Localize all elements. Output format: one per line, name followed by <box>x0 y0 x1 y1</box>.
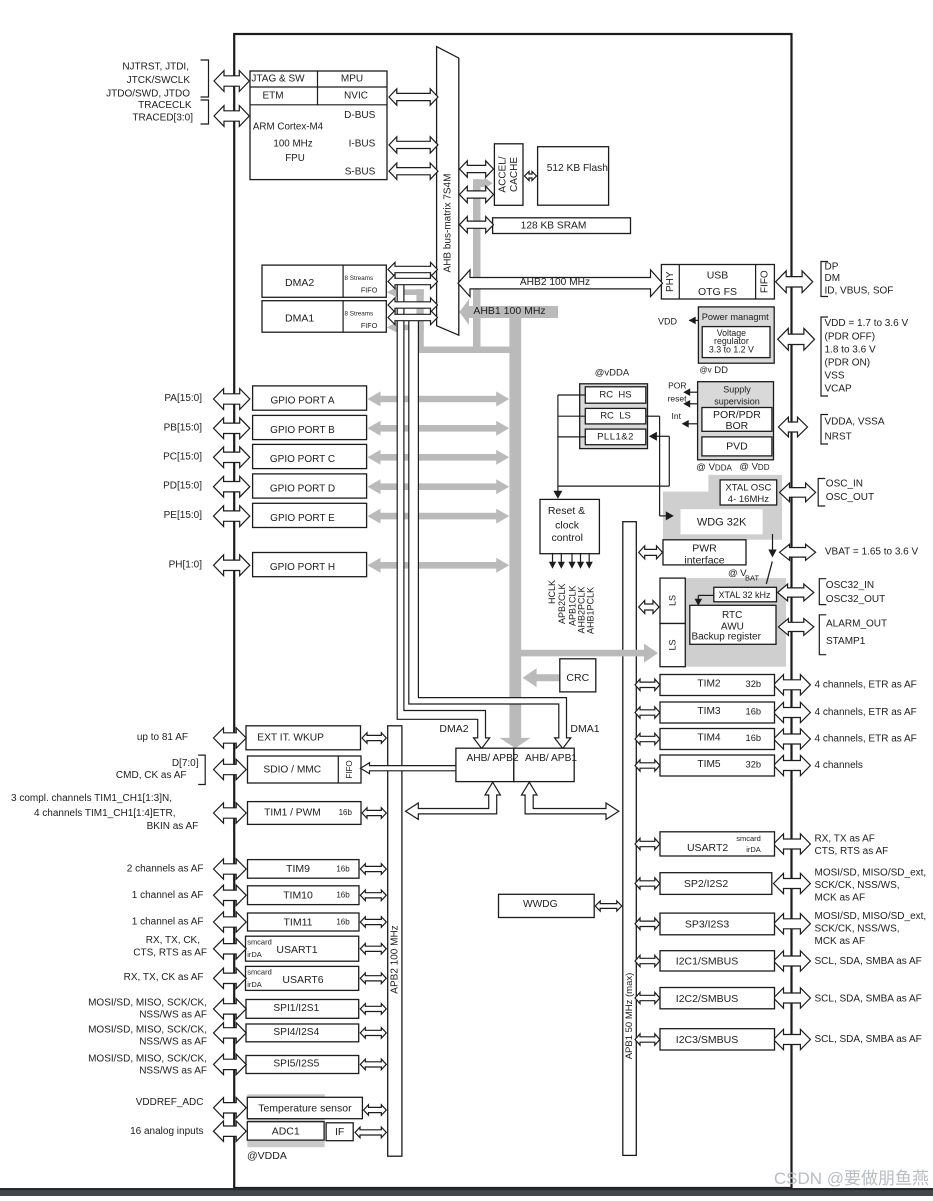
svg-text:32b: 32b <box>746 679 762 689</box>
svg-text:XTAL OSC: XTAL OSC <box>725 482 771 493</box>
svg-text:DMA1: DMA1 <box>570 723 599 735</box>
svg-text:LS: LS <box>668 595 678 606</box>
svg-text:supervision: supervision <box>714 396 760 406</box>
svg-text:4 channels TIM1_CH1[1:4]ETR,: 4 channels TIM1_CH1[1:4]ETR, <box>34 808 176 819</box>
svg-text:RX, TX as AF: RX, TX as AF <box>815 834 875 845</box>
svg-text:up to 81 AF: up to 81 AF <box>137 732 188 743</box>
svg-text:I2C3/SMBUS: I2C3/SMBUS <box>676 1034 738 1046</box>
svg-text:USB: USB <box>707 270 729 282</box>
svg-text:RC LS: RC LS <box>600 411 631 422</box>
svg-text:8 Streams: 8 Streams <box>345 310 374 317</box>
svg-text:AHB/ APB2: AHB/ APB2 <box>466 753 518 764</box>
svg-text:RX, TX, CK as AF: RX, TX, CK as AF <box>124 972 204 983</box>
svg-text:OTG FS: OTG FS <box>698 286 737 298</box>
svg-text:(PDR OFF): (PDR OFF) <box>825 331 876 342</box>
svg-text:128 KB SRAM: 128 KB SRAM <box>521 221 587 232</box>
svg-text:NVIC: NVIC <box>344 91 368 102</box>
svg-text:BKIN as AF: BKIN as AF <box>147 821 199 832</box>
svg-text:reset: reset <box>668 393 688 403</box>
svg-text:JTDO/SWD, JTDO: JTDO/SWD, JTDO <box>106 89 190 100</box>
svg-text:CTS, RTS as AF: CTS, RTS as AF <box>133 947 207 958</box>
svg-text:ETM: ETM <box>262 91 283 102</box>
svg-text:ADC1: ADC1 <box>272 1125 300 1137</box>
svg-text:512 KB Flash: 512 KB Flash <box>547 163 608 174</box>
svg-text:SCK/CK, NSS/WS,: SCK/CK, NSS/WS, <box>815 880 900 891</box>
svg-text:16b: 16b <box>336 918 350 927</box>
svg-text:NRST: NRST <box>825 432 852 443</box>
svg-text:Supply: Supply <box>723 384 751 394</box>
svg-text:TIM3: TIM3 <box>697 706 721 717</box>
svg-text:WDG 32K: WDG 32K <box>697 517 747 529</box>
svg-text:3.3 to 1.2 V: 3.3 to 1.2 V <box>709 345 754 355</box>
svg-text:interface: interface <box>684 555 724 567</box>
svg-text:CMD, CK as AF: CMD, CK as AF <box>116 770 187 781</box>
svg-text:4 channels, ETR as AF: 4 channels, ETR as AF <box>815 680 917 691</box>
svg-text:OSC_IN: OSC_IN <box>826 479 863 490</box>
svg-text:BAT: BAT <box>745 574 759 583</box>
svg-text:16b: 16b <box>746 707 762 717</box>
svg-text:GPIO PORT E: GPIO PORT E <box>270 513 335 524</box>
svg-text:TIM4: TIM4 <box>697 732 721 743</box>
svg-text:SP3/I2S3: SP3/I2S3 <box>685 919 730 931</box>
svg-text:FIFO: FIFO <box>361 285 378 294</box>
svg-text:TRACECLK: TRACECLK <box>138 100 192 111</box>
svg-text:FIFO: FIFO <box>760 270 771 293</box>
svg-text:I-BUS: I-BUS <box>349 139 376 150</box>
svg-text:smcard: smcard <box>247 937 272 946</box>
svg-text:@v DD: @v DD <box>700 364 729 375</box>
svg-text:PLL1&2: PLL1&2 <box>597 431 634 442</box>
svg-text:SCL, SDA, SMBA as AF: SCL, SDA, SMBA as AF <box>815 956 922 967</box>
svg-text:ARM Cortex-M4: ARM Cortex-M4 <box>253 122 324 133</box>
svg-text:GPIO PORT C: GPIO PORT C <box>270 454 335 465</box>
svg-text:CTS, RTS as AF: CTS, RTS as AF <box>815 846 889 857</box>
svg-text:ID, VBUS, SOF: ID, VBUS, SOF <box>825 286 894 297</box>
svg-text:BOR: BOR <box>726 420 749 432</box>
svg-text:AHB/ APB1: AHB/ APB1 <box>525 753 577 764</box>
svg-text:VDDREF_ADC: VDDREF_ADC <box>136 1097 204 1108</box>
svg-text:HCLK: HCLK <box>547 580 557 604</box>
svg-text:OSC32_OUT: OSC32_OUT <box>826 594 885 605</box>
svg-text:irDA: irDA <box>247 980 262 989</box>
svg-text:GPIO PORT H: GPIO PORT H <box>270 562 335 573</box>
svg-text:Power managmt: Power managmt <box>702 312 769 322</box>
svg-text:TRACED[3:0]: TRACED[3:0] <box>132 113 193 124</box>
svg-text:DMA2: DMA2 <box>439 723 468 735</box>
svg-text:DM: DM <box>825 273 841 284</box>
svg-text:control: control <box>551 532 583 544</box>
svg-text:4 channels: 4 channels <box>815 760 863 771</box>
svg-text:MOSI/SD, MISO, SCK/CK,: MOSI/SD, MISO, SCK/CK, <box>88 997 207 1008</box>
svg-text:PA[15:0]: PA[15:0] <box>164 393 202 404</box>
svg-text:XTAL 32 kHz: XTAL 32 kHz <box>718 590 771 600</box>
svg-text:APB1 50 MHz (max): APB1 50 MHz (max) <box>624 973 635 1060</box>
svg-text:16b: 16b <box>336 864 350 873</box>
svg-text:MCK as AF: MCK as AF <box>815 893 866 904</box>
svg-text:PB[15:0]: PB[15:0] <box>164 422 203 433</box>
svg-text:RX, TX, CK,: RX, TX, CK, <box>146 935 200 946</box>
svg-text:CRC: CRC <box>566 672 589 684</box>
svg-text:SPI4/I2S4: SPI4/I2S4 <box>273 1027 319 1038</box>
svg-text:USART2: USART2 <box>687 842 728 854</box>
svg-text:APB2 100 MHz: APB2 100 MHz <box>389 925 400 993</box>
svg-text:VDDA, VSSA: VDDA, VSSA <box>825 417 885 428</box>
svg-text:GPIO PORT B: GPIO PORT B <box>270 425 335 436</box>
svg-text:FIFO: FIFO <box>361 321 378 330</box>
svg-text:@ VDDA: @ VDDA <box>696 462 732 473</box>
svg-text:irDA: irDA <box>746 845 761 854</box>
svg-text:SP2/I2S2: SP2/I2S2 <box>684 878 729 890</box>
svg-text:NSS/WS as AF: NSS/WS as AF <box>139 1036 207 1047</box>
svg-text:OSC32_IN: OSC32_IN <box>826 580 874 591</box>
svg-text:SCL, SDA, SMBA as AF: SCL, SDA, SMBA as AF <box>815 994 922 1005</box>
svg-text:smcard: smcard <box>247 968 272 977</box>
svg-text:@ VDD: @ VDD <box>739 462 769 473</box>
svg-text:PH[1:0]: PH[1:0] <box>169 559 203 570</box>
svg-text:MOSI/SD, MISO/SD_ext,: MOSI/SD, MISO/SD_ext, <box>815 868 927 879</box>
svg-text:NSS/WS as AF: NSS/WS as AF <box>139 1065 207 1076</box>
svg-text:GPIO PORT A: GPIO PORT A <box>270 396 334 407</box>
svg-text:4 channels, ETR as AF: 4 channels, ETR as AF <box>815 734 917 745</box>
svg-text:VSS: VSS <box>825 370 845 381</box>
svg-text:1.8 to 3.6 V: 1.8 to 3.6 V <box>825 344 876 355</box>
svg-text:MPU: MPU <box>341 74 363 85</box>
svg-text:POR: POR <box>668 380 686 390</box>
svg-text:EXT IT. WKUP: EXT IT. WKUP <box>257 732 324 743</box>
svg-text:GPIO PORT D: GPIO PORT D <box>270 484 335 495</box>
svg-text:DMA1: DMA1 <box>285 312 314 324</box>
svg-text:VDD: VDD <box>658 317 678 327</box>
svg-text:PVD: PVD <box>726 440 748 452</box>
svg-text:1 channel as AF: 1 channel as AF <box>132 916 204 927</box>
svg-text:JTAG & SW: JTAG & SW <box>251 74 305 85</box>
svg-text:AWU: AWU <box>721 621 744 632</box>
svg-text:FPU: FPU <box>285 153 305 164</box>
svg-text:PHY: PHY <box>665 271 676 292</box>
svg-text:POR/PDR: POR/PDR <box>713 409 761 421</box>
svg-text:16b: 16b <box>746 733 762 743</box>
svg-text:clock: clock <box>555 520 580 532</box>
svg-text:2 channels as AF: 2 channels as AF <box>127 863 204 874</box>
svg-text:AHB bus-matrix 7S4M: AHB bus-matrix 7S4M <box>443 174 454 273</box>
svg-text:MOSI/SD, MISO/SD_ext,: MOSI/SD, MISO/SD_ext, <box>815 911 927 922</box>
svg-text:VCAP: VCAP <box>825 383 853 394</box>
svg-text:D-BUS: D-BUS <box>344 110 375 121</box>
svg-text:LS: LS <box>668 639 678 650</box>
svg-text:TIM11: TIM11 <box>284 916 313 928</box>
svg-text:USART6: USART6 <box>282 974 323 986</box>
svg-text:8 Streams: 8 Streams <box>345 275 374 282</box>
svg-text:S-BUS: S-BUS <box>345 166 376 177</box>
svg-text:Int: Int <box>672 411 682 421</box>
svg-text:JTCK/SWCLK: JTCK/SWCLK <box>127 75 191 86</box>
svg-text:(PDR ON): (PDR ON) <box>825 357 871 368</box>
svg-text:CSDN @要做朋鱼燕: CSDN @要做朋鱼燕 <box>774 1169 929 1188</box>
svg-text:MOSI/SD, MISO, SCK/CK,: MOSI/SD, MISO, SCK/CK, <box>88 1024 207 1035</box>
svg-text:DP: DP <box>825 262 839 273</box>
svg-text:CACHE: CACHE <box>509 157 520 192</box>
svg-text:WWDG: WWDG <box>523 899 558 910</box>
svg-text:I2C1/SMBUS: I2C1/SMBUS <box>676 956 738 968</box>
svg-text:RC HS: RC HS <box>599 390 631 401</box>
svg-text:1 channel as AF: 1 channel as AF <box>132 890 204 901</box>
svg-text:4- 16MHz: 4- 16MHz <box>728 494 769 505</box>
svg-text:PE[15:0]: PE[15:0] <box>164 510 203 521</box>
svg-text:irDA: irDA <box>247 950 262 959</box>
svg-text:16b: 16b <box>339 808 353 817</box>
svg-text:NJTRST, JTDI,: NJTRST, JTDI, <box>122 62 189 73</box>
svg-text:PC[15:0]: PC[15:0] <box>163 451 202 462</box>
svg-text:32b: 32b <box>746 760 762 770</box>
svg-text:AHB1 100 MHz: AHB1 100 MHz <box>473 305 545 317</box>
svg-text:I2C2/SMBUS: I2C2/SMBUS <box>676 993 738 1005</box>
svg-text:PD[15:0]: PD[15:0] <box>163 481 202 492</box>
svg-text:TIM1 / PWM: TIM1 / PWM <box>264 807 321 818</box>
svg-text:D[7:0]: D[7:0] <box>172 758 199 769</box>
svg-text:FIFO: FIFO <box>345 760 354 778</box>
svg-text:@vDDA: @vDDA <box>595 368 630 379</box>
svg-text:Temperature sensor: Temperature sensor <box>258 1103 352 1115</box>
svg-text:TIM10: TIM10 <box>283 890 313 902</box>
svg-text:SDIO / MMC: SDIO / MMC <box>263 765 321 776</box>
svg-text:IF: IF <box>335 1126 344 1138</box>
svg-text:16b: 16b <box>336 891 350 900</box>
svg-text:MCK as AF: MCK as AF <box>815 936 866 947</box>
svg-text:SCL, SDA, SMBA as AF: SCL, SDA, SMBA as AF <box>815 1034 922 1045</box>
svg-text:MOSI/SD, MISO, SCK/CK,: MOSI/SD, MISO, SCK/CK, <box>88 1053 207 1064</box>
svg-text:PWR: PWR <box>692 543 717 555</box>
svg-text:VDD = 1.7 to 3.6 V: VDD = 1.7 to 3.6 V <box>825 318 909 329</box>
svg-text:ALARM_OUT: ALARM_OUT <box>826 619 887 630</box>
svg-text:VBAT = 1.65 to 3.6 V: VBAT = 1.65 to 3.6 V <box>825 547 919 558</box>
svg-text:100 MHz: 100 MHz <box>273 138 312 149</box>
svg-text:TIM9: TIM9 <box>286 863 310 875</box>
svg-text:smcard: smcard <box>736 834 761 843</box>
svg-text:OSC_OUT: OSC_OUT <box>826 492 874 503</box>
svg-text:SCK/CK, NSS/WS,: SCK/CK, NSS/WS, <box>815 924 900 935</box>
svg-text:AHB2 100 MHz: AHB2 100 MHz <box>520 277 590 288</box>
svg-text:TIM2: TIM2 <box>697 678 721 689</box>
svg-text:USART1: USART1 <box>276 944 317 956</box>
svg-text:SPI1/I2S1: SPI1/I2S1 <box>273 1003 319 1014</box>
svg-text:STAMP1: STAMP1 <box>826 636 866 647</box>
svg-text:Backup register: Backup register <box>691 632 761 643</box>
svg-text:SPI5/I2S5: SPI5/I2S5 <box>273 1058 319 1069</box>
svg-text:RTC: RTC <box>722 610 742 621</box>
svg-text:Reset &: Reset & <box>548 505 585 517</box>
svg-text:3 compl. channels TIM1_CH1[1:3: 3 compl. channels TIM1_CH1[1:3]N, <box>11 793 172 804</box>
svg-text:TIM5: TIM5 <box>697 759 721 770</box>
svg-text:4 channels, ETR as AF: 4 channels, ETR as AF <box>815 707 917 718</box>
svg-text:ACCEL/: ACCEL/ <box>497 156 508 192</box>
svg-text:DMA2: DMA2 <box>285 277 314 289</box>
svg-text:@VDDA: @VDDA <box>247 1150 287 1162</box>
svg-text:16 analog inputs: 16 analog inputs <box>130 1126 203 1137</box>
svg-text:NSS/WS as AF: NSS/WS as AF <box>139 1009 207 1020</box>
svg-text:AHB1PCLK: AHB1PCLK <box>586 587 596 634</box>
svg-text:APB2CLK: APB2CLK <box>557 584 567 625</box>
